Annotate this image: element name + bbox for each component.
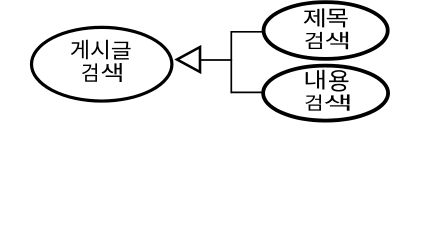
use case ellipse: 게시글 검색 bbox=[32, 27, 172, 101]
wire: middle horizontal connector bbox=[200, 59, 232, 61]
use case ellipse: 내용 검색 bbox=[263, 66, 388, 121]
text "게시글" (게시글 검색 line1) bbox=[71, 40, 131, 60]
text "내용" (내용) bbox=[306, 70, 349, 92]
text "검색" (검색 top) bbox=[305, 32, 348, 49]
use case ellipse: 제목 검색 bbox=[264, 2, 388, 59]
text "제목" (제목) bbox=[304, 8, 348, 27]
text "검색" (검색 bottom) bbox=[305, 94, 349, 110]
generalization triangle arrowhead bbox=[177, 47, 200, 72]
wire: vertical connector bbox=[230, 31, 232, 93]
wire: top branch bbox=[231, 31, 264, 33]
wire: bottom branch bbox=[231, 91, 264, 93]
text "검색" (검색 left) bbox=[82, 63, 122, 82]
